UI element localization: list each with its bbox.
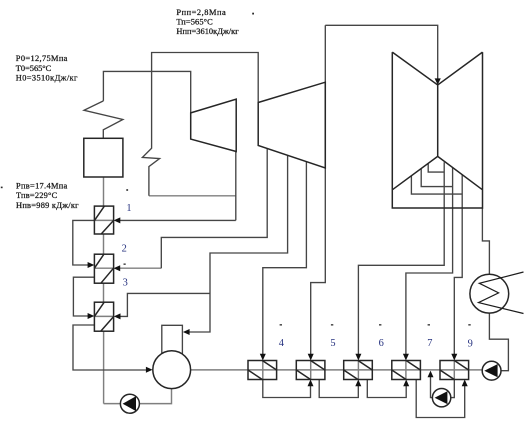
svg-text:4: 4 bbox=[279, 338, 285, 349]
svg-text:Рпп=2,8Мпа: Рпп=2,8Мпа bbox=[176, 8, 226, 17]
svg-text:Нпв=989 кДж/кг: Нпв=989 кДж/кг bbox=[16, 201, 79, 210]
svg-text:5: 5 bbox=[330, 338, 335, 349]
svg-text:9: 9 bbox=[468, 338, 473, 349]
svg-text:6: 6 bbox=[379, 338, 384, 349]
svg-text:1: 1 bbox=[126, 203, 131, 214]
svg-text:T0=565°C: T0=565°C bbox=[16, 64, 52, 73]
svg-text:P0=12,75Мпа: P0=12,75Мпа bbox=[16, 54, 68, 63]
svg-text:Рпв=17.4Мпа: Рпв=17.4Мпа bbox=[16, 181, 67, 190]
svg-text:Нпп=3610кДж/кг: Нпп=3610кДж/кг bbox=[176, 27, 239, 36]
svg-text:7: 7 bbox=[427, 338, 432, 349]
svg-text:3: 3 bbox=[123, 277, 128, 288]
svg-text:H0=3510кДж/кг: H0=3510кДж/кг bbox=[16, 73, 78, 82]
svg-text:2: 2 bbox=[122, 244, 127, 255]
svg-text:Тпв=229°С: Тпв=229°С bbox=[16, 191, 58, 200]
svg-text:Тп=565°С: Тп=565°С bbox=[176, 17, 213, 26]
